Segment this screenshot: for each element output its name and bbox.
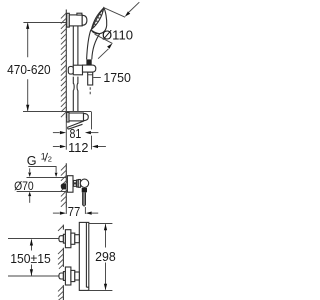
svg-text:298: 298: [95, 249, 116, 264]
extension line top of rail: [23, 22, 66, 24]
knob stem: [77, 180, 79, 187]
svg-text:81: 81: [70, 127, 82, 141]
head-handle joint: [92, 31, 100, 34]
spray face: [91, 8, 103, 30]
svg-text:470-620: 470-620: [7, 63, 51, 77]
bottom union wall block: [63, 272, 65, 281]
bottom union body: [71, 270, 75, 281]
dim 77 (middle figure): [65, 208, 67, 214]
shower rail tube: [73, 26, 78, 111]
Ø70 arrows: [29, 168, 31, 172]
svg-text:1750: 1750: [103, 70, 130, 85]
dim line 298: [105, 224, 107, 289]
hose dashed continuation: [89, 87, 91, 94]
bottom union bolt: [59, 273, 64, 279]
svg-text:G: G: [27, 154, 37, 168]
bottom union centerline: [8, 275, 59, 277]
wall (top figure): [65, 10, 67, 119]
G 1/2 leader: [28, 167, 56, 173]
wall hatching (middle figure): [61, 165, 66, 207]
G 1/2 supply pipe in wall: [61, 183, 67, 189]
dim Ø70 bottom extension: [17, 191, 67, 193]
hose nipple: [88, 72, 93, 85]
spray face nozzles: [102, 11, 104, 13]
escutcheon (middle figure): [67, 176, 73, 193]
top union bolt: [59, 236, 64, 242]
dim 298 top extension: [89, 223, 113, 225]
bottom bracket top line / extension: [23, 111, 92, 113]
dim 298 bottom extension: [89, 290, 113, 292]
slider knob: [68, 66, 73, 74]
right extension line x91: [91, 112, 93, 150]
rail adjustable-length break: [73, 83, 77, 90]
wall hatching (top figure): [61, 13, 66, 117]
shower outlet tube: [83, 192, 85, 205]
thermostat body: [79, 222, 89, 290]
body front edge line: [86, 222, 88, 287]
bottom wall bracket plate: [67, 112, 69, 122]
hose end at bracket: [67, 121, 84, 129]
wall (middle figure): [65, 163, 67, 207]
top wall bracket arm: [69, 15, 82, 26]
top bracket clamp bump: [77, 13, 82, 15]
dim line 470-620: [27, 23, 29, 111]
svg-text:2: 2: [48, 154, 52, 163]
dim Ø70 top extension: [27, 177, 67, 179]
dim Ø110 lower leader: [98, 49, 108, 59]
dim 150±15: [31, 240, 33, 276]
svg-text:150±15: 150±15: [10, 252, 51, 266]
wall extension below (left): [65, 118, 67, 150]
leader line 1750: [93, 77, 101, 79]
top union wall block: [63, 234, 65, 243]
dim 112: [53, 146, 60, 148]
top union nut: [75, 235, 80, 243]
top union centerline: [8, 238, 59, 240]
svg-text:112: 112: [68, 141, 88, 155]
wall (bottom figure): [62, 225, 64, 300]
temperature knob: [80, 179, 88, 187]
hand shower holder socket: [83, 65, 96, 72]
svg-text:Ø70: Ø70: [14, 179, 34, 193]
bottom bracket end cap: [84, 113, 89, 120]
svg-text:77: 77: [68, 205, 81, 219]
top bracket end cap: [82, 15, 87, 25]
cartridge detail: [74, 181, 77, 183]
hand shower head: [91, 8, 107, 34]
slider body: [73, 65, 82, 75]
dim Ø110 upper leader: [129, 2, 139, 12]
wall hatching (bottom figure): [58, 226, 63, 300]
top union body: [71, 233, 75, 244]
dim 81: [53, 132, 60, 134]
bottom wall bracket body: [69, 113, 84, 121]
hose union nut: [82, 188, 87, 192]
hand shower handle: [87, 30, 100, 60]
dim Ø110 upper extension: [104, 8, 125, 18]
hand shower handle butt: [86, 59, 91, 65]
top wall bracket plate: [67, 13, 70, 27]
bottom union nut: [75, 272, 80, 280]
bottom union flange: [65, 267, 71, 285]
dim Ø110 lower extension: [95, 34, 113, 43]
top union flange: [65, 230, 71, 248]
